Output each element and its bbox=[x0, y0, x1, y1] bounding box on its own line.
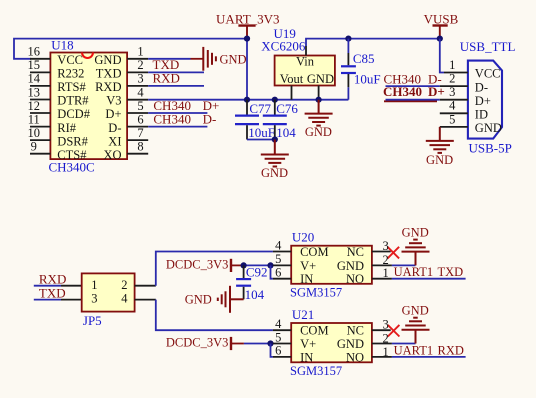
svg-text:GND: GND bbox=[426, 153, 453, 167]
svg-text:DCDC_3V3: DCDC_3V3 bbox=[166, 336, 229, 350]
wire C77/C76 bottoms bbox=[247, 139, 275, 141]
wire JP5 pin4 to U21 COM bbox=[156, 300, 273, 331]
svg-text:4: 4 bbox=[449, 99, 456, 113]
analog switch U20 SGM3157 bbox=[290, 230, 372, 300]
svg-text:1: 1 bbox=[137, 45, 143, 59]
svg-text:3: 3 bbox=[383, 318, 389, 332]
svg-text:RXD: RXD bbox=[153, 71, 180, 86]
power port DCDC_3V3 (U20) bbox=[166, 258, 244, 273]
svg-text:RI#: RI# bbox=[57, 121, 77, 135]
svg-text:11: 11 bbox=[28, 112, 40, 126]
analog switch U21 SGM3157 bbox=[290, 307, 372, 378]
capacitor C76 bbox=[263, 100, 299, 140]
svg-text:12: 12 bbox=[28, 99, 41, 113]
svg-text:USB_TTL: USB_TTL bbox=[460, 39, 516, 54]
svg-text:RTS#: RTS# bbox=[57, 80, 86, 94]
U20 pin1 wire UART1_TXD bbox=[372, 278, 392, 280]
junction U19 GND bbox=[316, 97, 322, 103]
svg-text:C77: C77 bbox=[249, 101, 271, 116]
wire V+ down to IN (U21) bbox=[271, 344, 273, 357]
U18 right pin stubs bbox=[127, 59, 148, 154]
svg-text:2: 2 bbox=[121, 278, 127, 292]
svg-text:UART_3V3: UART_3V3 bbox=[216, 12, 280, 27]
svg-text:7: 7 bbox=[137, 126, 143, 140]
U21 left pin stubs bbox=[273, 330, 291, 357]
power port UART_3V3 bbox=[216, 12, 280, 39]
U19 Vout pin bbox=[291, 86, 293, 100]
svg-text:GND: GND bbox=[402, 225, 429, 239]
svg-text:C85: C85 bbox=[353, 51, 375, 66]
svg-text:1: 1 bbox=[91, 278, 97, 292]
connector USB_TTL USB-5P bbox=[460, 39, 516, 156]
svg-text:RXD: RXD bbox=[95, 80, 121, 94]
svg-text:5: 5 bbox=[275, 252, 281, 266]
wire V+ down to IN (U20) bbox=[271, 265, 273, 278]
wire DCDC_3V3 to U21 V+ bbox=[244, 343, 273, 345]
svg-text:GND: GND bbox=[402, 303, 429, 317]
ground earth above U20 pin2 (flipped) bbox=[402, 240, 430, 266]
svg-text:CTS#: CTS# bbox=[57, 148, 87, 162]
svg-text:JP5: JP5 bbox=[83, 313, 102, 328]
JP5 pin4 stub bbox=[135, 299, 156, 301]
svg-text:XO: XO bbox=[103, 148, 121, 162]
wire JP5 pin2 to U20 COM bbox=[156, 252, 273, 286]
svg-text:1: 1 bbox=[449, 58, 455, 72]
svg-text:V+: V+ bbox=[300, 259, 316, 273]
svg-text:3: 3 bbox=[137, 72, 143, 86]
wire UART_3V3 down to V3 rail bbox=[246, 39, 248, 100]
svg-text:GND: GND bbox=[337, 337, 364, 351]
U21 right pin numbers bbox=[383, 318, 389, 359]
svg-text:DTR#: DTR# bbox=[57, 94, 89, 108]
svg-text:D-: D- bbox=[108, 121, 121, 135]
svg-text:CH340: CH340 bbox=[383, 84, 422, 99]
junction C85 top bbox=[345, 36, 351, 42]
svg-text:TXD: TXD bbox=[438, 265, 464, 279]
svg-text:104: 104 bbox=[276, 125, 296, 140]
svg-text:GND: GND bbox=[185, 293, 212, 307]
svg-text:U21: U21 bbox=[292, 307, 314, 322]
power port DCDC_3V3 (U21) bbox=[166, 336, 244, 351]
wire VUSB down to USB pin1 bbox=[440, 39, 444, 73]
svg-text:DSR#: DSR# bbox=[57, 134, 88, 148]
svg-text:13: 13 bbox=[28, 85, 41, 99]
svg-text:UART1: UART1 bbox=[394, 343, 434, 357]
U21 pin1 wire UART1_RXD bbox=[372, 356, 392, 358]
svg-text:Vin: Vin bbox=[296, 55, 315, 69]
svg-text:VUSB: VUSB bbox=[424, 11, 459, 26]
svg-text:4: 4 bbox=[121, 292, 128, 306]
ground GND power port (sideways right) at U18 pin1 bbox=[203, 47, 216, 71]
svg-text:D+: D+ bbox=[105, 107, 121, 121]
svg-text:10: 10 bbox=[28, 126, 41, 140]
USB-5P pin4 stub bbox=[440, 112, 468, 114]
U18 right pin numbers bbox=[137, 45, 144, 154]
junction VUSB bbox=[437, 36, 443, 42]
svg-text:C76: C76 bbox=[276, 101, 298, 116]
IC U18 CH340C body bbox=[49, 37, 128, 174]
U18 right pin names bbox=[94, 53, 121, 162]
junction caps bottom bbox=[272, 136, 278, 142]
U20 right pin numbers bbox=[383, 239, 389, 280]
svg-text:14: 14 bbox=[28, 72, 41, 86]
svg-text:IN: IN bbox=[300, 272, 313, 286]
svg-text:GND: GND bbox=[261, 166, 288, 180]
wire U18 pin16 loop to UART_3V3 bbox=[14, 39, 247, 59]
U19 GND pin bbox=[318, 86, 320, 100]
connector JP5 bbox=[82, 273, 135, 328]
svg-text:D-: D- bbox=[475, 80, 488, 94]
svg-text:COM: COM bbox=[300, 245, 328, 259]
svg-text:Vout: Vout bbox=[280, 72, 304, 86]
svg-text:5: 5 bbox=[137, 99, 143, 113]
svg-text:GND: GND bbox=[305, 125, 332, 139]
svg-text:D+: D+ bbox=[428, 84, 445, 99]
svg-text:VCC: VCC bbox=[475, 67, 501, 81]
svg-text:NO: NO bbox=[346, 272, 364, 286]
svg-text:GND: GND bbox=[475, 121, 502, 135]
svg-text:6: 6 bbox=[275, 344, 281, 358]
svg-text:10uF: 10uF bbox=[248, 125, 275, 140]
capacitor C92 bbox=[236, 264, 267, 302]
svg-text:104: 104 bbox=[245, 287, 265, 302]
junction C76 top bbox=[272, 97, 278, 103]
svg-text:RXD: RXD bbox=[39, 272, 66, 287]
U21 pin2 stub + wire to GND bbox=[372, 343, 392, 345]
svg-text:V+: V+ bbox=[300, 337, 316, 351]
svg-text:9: 9 bbox=[31, 140, 37, 154]
USB-5P pin5 stub bbox=[440, 126, 468, 128]
U19 Vin pin + wire to top rail bbox=[305, 46, 307, 56]
svg-text:3: 3 bbox=[449, 85, 455, 99]
svg-text:4: 4 bbox=[275, 238, 282, 252]
U20 pin3 stub (NC) bbox=[372, 251, 391, 253]
wire V3 rail (U18 pin4 to C85 bottom) bbox=[148, 99, 348, 101]
power port VUSB bbox=[424, 11, 459, 38]
wire DCDC_3V3 to U20 V+ bbox=[244, 264, 273, 266]
U18 left pin names bbox=[57, 53, 90, 162]
U18 left pin numbers bbox=[28, 45, 41, 154]
svg-text:TXD: TXD bbox=[96, 67, 122, 81]
svg-text:UART1: UART1 bbox=[394, 265, 434, 279]
svg-text:XI: XI bbox=[108, 134, 121, 148]
ground earth below C77/C76 bbox=[261, 140, 289, 167]
no-ERC X marker U20 pin3 bbox=[388, 247, 400, 259]
svg-text:D+: D+ bbox=[475, 94, 491, 108]
svg-text:XC6206: XC6206 bbox=[261, 38, 306, 53]
svg-text:GND: GND bbox=[307, 72, 334, 86]
regulator U19 XC6206 bbox=[261, 26, 335, 86]
svg-text:SGM3157: SGM3157 bbox=[290, 364, 342, 378]
svg-text:15: 15 bbox=[28, 58, 41, 72]
svg-text:SGM3157: SGM3157 bbox=[290, 286, 342, 300]
svg-text:NC: NC bbox=[347, 324, 364, 338]
junction UART_3V3 bbox=[244, 36, 250, 42]
svg-text:GND: GND bbox=[337, 259, 364, 273]
svg-text:8: 8 bbox=[137, 140, 143, 154]
svg-text:2: 2 bbox=[137, 58, 143, 72]
svg-text:NC: NC bbox=[347, 245, 364, 259]
svg-text:USB-5P: USB-5P bbox=[469, 141, 512, 156]
ground earth above U21 pin2 (flipped) bbox=[402, 318, 430, 344]
junction V+/IN tie (U21) bbox=[267, 340, 273, 346]
no-ERC X marker U21 pin3 bbox=[388, 325, 400, 337]
svg-text:CH340: CH340 bbox=[153, 112, 191, 127]
svg-text:ID: ID bbox=[475, 108, 488, 122]
svg-text:GND: GND bbox=[220, 53, 247, 67]
svg-text:U18: U18 bbox=[51, 37, 73, 52]
capacitor C77 bbox=[235, 100, 275, 140]
svg-text:GND: GND bbox=[94, 53, 121, 67]
svg-text:16: 16 bbox=[28, 45, 41, 59]
svg-text:C92: C92 bbox=[246, 264, 268, 279]
svg-text:V3: V3 bbox=[106, 94, 121, 108]
U21 pin3 stub (NC) bbox=[372, 329, 391, 331]
JP5 pin2 stub bbox=[135, 285, 156, 287]
svg-text:6: 6 bbox=[275, 266, 281, 280]
U18 left pin stubs bbox=[30, 59, 50, 154]
capacitor C85 bbox=[341, 39, 381, 100]
svg-text:R232: R232 bbox=[57, 67, 84, 81]
svg-text:DCD#: DCD# bbox=[57, 107, 90, 121]
svg-text:U20: U20 bbox=[292, 230, 314, 245]
ground earth below USB-5P pin5 bbox=[426, 127, 454, 153]
USB-5P pin names bbox=[475, 67, 502, 135]
junction V3/UART_3V3 bbox=[244, 97, 250, 103]
svg-text:COM: COM bbox=[300, 324, 328, 338]
USB-5P pin1 stub bbox=[444, 72, 468, 74]
svg-text:10uF: 10uF bbox=[354, 71, 381, 86]
svg-text:3: 3 bbox=[91, 292, 97, 306]
svg-text:NO: NO bbox=[346, 350, 364, 364]
svg-text:DCDC_3V3: DCDC_3V3 bbox=[166, 258, 229, 272]
wire U18 pin1 to GND power port bbox=[148, 58, 190, 60]
svg-text:2: 2 bbox=[449, 72, 455, 86]
svg-text:4: 4 bbox=[137, 85, 144, 99]
svg-text:TXD: TXD bbox=[39, 286, 66, 301]
U20 pin2 stub + wire to GND bbox=[372, 264, 392, 266]
svg-text:4: 4 bbox=[275, 317, 282, 331]
junction V+/IN tie (U20) bbox=[267, 262, 273, 268]
svg-text:IN: IN bbox=[300, 350, 313, 364]
svg-text:6: 6 bbox=[137, 112, 143, 126]
svg-text:RXD: RXD bbox=[438, 343, 464, 357]
U20 left pin numbers bbox=[275, 238, 282, 279]
svg-text:D-: D- bbox=[203, 112, 217, 127]
ground GND power port (sideways left) at C92 bbox=[218, 286, 244, 313]
svg-text:VCC: VCC bbox=[57, 53, 83, 67]
svg-text:3: 3 bbox=[383, 239, 389, 253]
U21 left pin numbers bbox=[275, 317, 282, 358]
ground earth below U19 bbox=[305, 100, 333, 126]
svg-text:5: 5 bbox=[275, 330, 281, 344]
USB-5P pin numbers bbox=[449, 58, 456, 126]
U20 left pin stubs bbox=[273, 252, 291, 279]
junction C92 top bbox=[241, 262, 247, 268]
svg-text:5: 5 bbox=[449, 112, 455, 126]
